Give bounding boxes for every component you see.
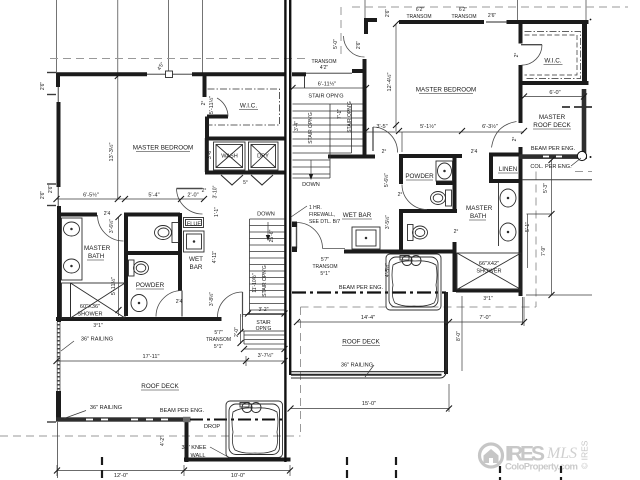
svg-text:2'-0": 2'-0"	[234, 327, 240, 337]
door arc, master bath A	[98, 215, 124, 241]
IRES MLS ColoProperty.com watermark	[480, 440, 590, 472]
double vanity sinks, master bath B	[498, 183, 500, 246]
svg-text:6'2": 6'2"	[416, 7, 425, 13]
toilet, powder room B	[446, 190, 452, 206]
unit B right side dims	[551, 160, 553, 295]
svg-text:TRANSOM: TRANSOM	[313, 264, 338, 270]
svg-text:FIREWALL,: FIREWALL,	[309, 212, 335, 218]
unit B hall dims y131	[363, 131, 525, 133]
svg-text:66"X42": 66"X42"	[479, 261, 499, 267]
svg-text:2°: 2°	[514, 53, 520, 58]
svg-text:4'2": 4'2"	[320, 65, 329, 71]
svg-text:SHOWER: SHOWER	[476, 269, 501, 275]
unit B master roof deck right beam	[582, 89, 586, 155]
shower 60x36, master bath A	[62, 283, 71, 318]
unit B WIC	[582, 20, 587, 85]
bifold doors, laundry closet A	[221, 175, 243, 185]
door arc, unit B entry at top left	[344, 36, 365, 57]
toilet, master bath A water closet	[172, 223, 179, 243]
beam per eng., roof deck B	[292, 291, 446, 293]
svg-text:3'-6": 3'-6"	[207, 149, 213, 159]
svg-text:3'-10": 3'-10"	[213, 185, 219, 198]
36in railing, roof deck B	[291, 292, 447, 378]
36in railing, roof deck A south edge	[56, 417, 184, 421]
sink, powder room B	[436, 161, 453, 181]
svg-text:15'-0": 15'-0"	[362, 401, 376, 407]
stair treads, unit A stairwell	[243, 219, 285, 344]
dryer closet DRY, unit A	[249, 142, 279, 170]
flue chase, unit A	[184, 218, 204, 228]
unit B bedroom door from stairs	[372, 127, 374, 151]
svg-text:5'-1½": 5'-1½"	[420, 123, 436, 130]
unit A WIC stub / walls	[203, 76, 207, 97]
svg-text:5'-6½": 5'-6½"	[383, 173, 390, 187]
svg-text:10'-0": 10'-0"	[231, 473, 245, 479]
svg-text:W.I.C.: W.I.C.	[544, 58, 561, 65]
wet bar sink, unit A	[184, 231, 205, 252]
svg-text:14'-4": 14'-4"	[361, 315, 375, 321]
door arc, powder room A	[156, 291, 182, 317]
unit B wet bar / tub top wall	[344, 250, 453, 254]
svg-text:TRANSOM: TRANSOM	[407, 14, 432, 20]
svg-text:36" RAILING: 36" RAILING	[81, 337, 113, 343]
svg-text:2°: 2°	[398, 192, 403, 198]
svg-text:5°: 5°	[243, 180, 248, 186]
svg-text:2°: 2°	[512, 137, 518, 142]
svg-text:BEAM PER ENG.: BEAM PER ENG.	[339, 285, 384, 291]
unit B 7-0 + 14-4 dim	[297, 321, 524, 323]
svg-text:36" KNEE: 36" KNEE	[182, 445, 207, 451]
svg-text:MASTER BEDROOM: MASTER BEDROOM	[416, 87, 477, 94]
door arc, W.I.C. A	[217, 98, 228, 117]
svg-text:2'6": 2'6"	[40, 82, 46, 91]
svg-text:3'-5": 3'-5"	[376, 124, 387, 130]
svg-text:5'-4": 5'-4"	[148, 193, 159, 199]
svg-text:BEAM PER ENG.: BEAM PER ENG.	[160, 408, 205, 414]
unit B stair area walls	[363, 75, 367, 156]
unit B stair dim y88	[293, 87, 363, 89]
svg-text:36" RAILING: 36" RAILING	[90, 405, 122, 411]
svg-text:BAR: BAR	[190, 264, 203, 271]
svg-text:STAIR OPN'G: STAIR OPN'G	[308, 94, 343, 100]
svg-text:STAIR OPN'G: STAIR OPN'G	[308, 112, 314, 144]
svg-text:5'-1": 5'-1"	[525, 222, 531, 232]
svg-text:SEE DTL. B/7: SEE DTL. B/7	[309, 219, 340, 225]
svg-text:TRANSOM: TRANSOM	[206, 337, 231, 343]
svg-text:5'7": 5'7"	[321, 257, 330, 263]
svg-text:BEAM PER ENG.: BEAM PER ENG.	[531, 146, 576, 152]
svg-text:5°1": 5°1"	[320, 271, 330, 277]
svg-text:2'4: 2'4	[471, 149, 478, 155]
unit A deck dim y361	[57, 360, 285, 362]
svg-text:MASTER: MASTER	[466, 205, 493, 212]
svg-text:13'-3½": 13'-3½"	[108, 143, 115, 162]
svg-text:WET: WET	[189, 256, 203, 263]
svg-text:6'-11½": 6'-11½"	[318, 81, 337, 88]
unit B shower walls	[453, 242, 457, 292]
beam per eng., master roof deck B	[519, 154, 587, 159]
svg-text:2°: 2°	[202, 188, 207, 194]
stair treads, unit B stairwell	[293, 104, 363, 178]
svg-text:3'-2": 3'-2"	[259, 307, 269, 313]
svg-text:MASTER: MASTER	[539, 114, 566, 121]
wash/dry side wall	[205, 138, 209, 172]
svg-text:2'6": 2'6"	[356, 41, 362, 50]
svg-text:8'-0": 8'-0"	[456, 331, 462, 341]
svg-text:3'-5½": 3'-5½"	[384, 215, 391, 229]
svg-text:6'-3½": 6'-3½"	[482, 123, 498, 130]
svg-text:BATH: BATH	[470, 213, 487, 220]
svg-text:WASH: WASH	[221, 154, 238, 160]
svg-text:ROOF DECK: ROOF DECK	[342, 339, 380, 346]
svg-text:3'-7½": 3'-7½"	[258, 352, 274, 359]
svg-text:5'-0": 5'-0"	[333, 39, 339, 49]
unit A bottom wall	[56, 317, 222, 321]
svg-text:POWDER: POWDER	[405, 173, 434, 180]
door arc, stair hall B	[297, 223, 323, 249]
svg-text:5'-11½": 5'-11½"	[208, 96, 215, 115]
svg-text:11'-10½": 11'-10½"	[251, 273, 258, 293]
door arc, deck transom door A	[218, 292, 243, 317]
door arc, bedroom A to hall	[177, 189, 203, 215]
unit B deck 15-0 dim	[291, 408, 450, 410]
svg-text:3'-4": 3'-4"	[294, 121, 300, 131]
svg-text:5'-3": 5'-3"	[543, 183, 549, 193]
svg-text:36" RAILING: 36" RAILING	[341, 363, 373, 369]
svg-text:BATH: BATH	[88, 253, 105, 260]
svg-text:MASTER: MASTER	[84, 245, 111, 252]
vanity counter, master bath A	[62, 218, 83, 280]
svg-text:FLUE: FLUE	[187, 222, 202, 228]
washer closet WASH, unit A	[214, 142, 246, 170]
svg-text:© IRES: © IRES	[580, 440, 590, 469]
closet rod lines, W.I.C. A	[208, 89, 280, 125]
svg-text:2'4: 2'4	[176, 299, 183, 305]
svg-text:12'-0": 12'-0"	[114, 473, 128, 479]
svg-text:12'-4½": 12'-4½"	[386, 73, 393, 92]
svg-text:MLS: MLS	[546, 445, 577, 462]
svg-text:WET BAR: WET BAR	[343, 212, 372, 219]
svg-text:DOWN: DOWN	[257, 212, 275, 218]
property line tick marks, bottom	[102, 457, 561, 480]
svg-text:6'-5½": 6'-5½"	[83, 192, 99, 199]
unit B linen	[489, 153, 522, 157]
svg-text:7'-9": 7'-9"	[541, 246, 547, 256]
svg-text:4'-2": 4'-2"	[160, 436, 166, 446]
svg-text:POWDER: POWDER	[136, 282, 165, 289]
closet rod lines, W.I.C. B	[525, 32, 581, 79]
svg-text:3'-8½": 3'-8½"	[208, 292, 215, 306]
svg-text:5°1": 5°1"	[214, 344, 224, 350]
bottom dim y470	[57, 470, 290, 472]
hot tub, roof deck A drop area	[226, 401, 283, 458]
svg-text:7'-0": 7'-0"	[479, 315, 490, 321]
unit A bath interior	[57, 213, 97, 217]
svg-text:5'7": 5'7"	[214, 330, 223, 336]
svg-text:2'6": 2'6"	[385, 9, 391, 18]
left 2'6 ticks	[47, 72, 56, 74]
unit A stair dims	[240, 314, 242, 344]
top verticals	[56, 0, 58, 72]
dim slash ticks	[54, 21, 588, 474]
svg-text:COL. PER ENG.: COL. PER ENG.	[530, 164, 572, 170]
unit B deck right wall lower	[444, 292, 448, 374]
door arc, powder room B	[402, 185, 427, 210]
svg-text:1 HR.: 1 HR.	[309, 205, 322, 211]
rotated dim texts	[40, 9, 549, 446]
unit A left wall segments	[57, 102, 61, 187]
svg-text:6'2": 6'2"	[459, 7, 468, 13]
svg-text:OPN'G: OPN'G	[256, 326, 272, 332]
unit B right wall below deck door	[519, 147, 523, 296]
unit A shower dim x118.5	[118, 217, 120, 316]
svg-text:4'-11": 4'-11"	[212, 251, 218, 264]
svg-text:2'-0": 2'-0"	[187, 193, 198, 199]
svg-text:25'-6": 25'-6"	[269, 229, 275, 242]
svg-text:2'6": 2'6"	[48, 185, 54, 194]
lower stair box	[243, 315, 285, 332]
shower 66x42, master bath B	[457, 253, 521, 290]
svg-text:STAIR OPN'G: STAIR OPN'G	[262, 265, 268, 297]
svg-text:2°: 2°	[382, 149, 387, 155]
unit B powder area	[399, 154, 462, 158]
svg-text:60"X36": 60"X36"	[80, 304, 100, 310]
svg-text:MASTER BEDROOM: MASTER BEDROOM	[133, 145, 194, 152]
window lines in exterior walls	[58, 22, 507, 206]
svg-text:W.I.C.: W.I.C.	[240, 103, 257, 110]
sink, master bath A lower	[64, 259, 80, 273]
36in knee wall, deck A drop	[185, 422, 189, 462]
svg-text:TRANSOM: TRANSOM	[452, 14, 477, 20]
svg-text:7'-1": 7'-1"	[337, 109, 343, 119]
unit A bedroom dim y199	[57, 198, 205, 200]
svg-text:ROOF DECK: ROOF DECK	[533, 122, 571, 129]
wall stub right of firewall at top	[292, 72, 306, 76]
svg-text:3'-6½": 3'-6½"	[108, 219, 115, 233]
unit B top	[399, 20, 484, 24]
svg-text:ColoProperty.com: ColoProperty.com	[505, 462, 578, 473]
svg-text:WALL: WALL	[190, 453, 205, 459]
wet bar sink, unit B	[352, 227, 380, 249]
svg-text:3°1": 3°1"	[93, 323, 103, 329]
svg-text:2'6": 2'6"	[40, 191, 46, 200]
svg-text:2°: 2°	[201, 101, 207, 106]
svg-text:1'-1": 1'-1"	[214, 207, 220, 217]
beam per eng., roof deck A	[190, 419, 285, 421]
svg-text:4'-5½": 4'-5½"	[384, 263, 391, 277]
tub, master bath B	[386, 254, 441, 310]
svg-text:2'4: 2'4	[104, 211, 111, 217]
toilet, powder room A	[129, 260, 135, 276]
svg-text:6'-0": 6'-0"	[549, 90, 560, 96]
svg-text:SHOWER: SHOWER	[77, 312, 102, 318]
leaders	[61, 158, 581, 458]
svg-text:ROOF DECK: ROOF DECK	[141, 383, 179, 390]
railing pier, deck A west	[56, 391, 61, 418]
unit A top wall	[56, 72, 147, 76]
svg-text:3°1": 3°1"	[483, 296, 493, 302]
svg-text:2'6": 2'6"	[488, 13, 497, 19]
36in railing, roof deck A west edge	[57, 322, 60, 478]
svg-text:DRY: DRY	[257, 154, 269, 160]
svg-text:17'-11": 17'-11"	[143, 354, 160, 360]
1-hr firewall between units	[285, 0, 290, 462]
unit B master deck 6-0 dim	[524, 96, 584, 98]
down arrows in stairs	[267, 222, 269, 240]
arrowheads	[266, 174, 313, 241]
svg-text:LINEN: LINEN	[499, 166, 518, 173]
door arc, bedroom B to master roof deck	[492, 122, 517, 148]
sink, master bath A upper	[64, 222, 80, 236]
door arc, W.I.C. B	[521, 44, 542, 46]
svg-text:STAIR OPN'G: STAIR OPN'G	[347, 101, 353, 133]
svg-text:DOWN: DOWN	[302, 182, 320, 188]
svg-text:5'-11½": 5'-11½"	[110, 277, 117, 296]
pedestal sink, powder room A	[131, 295, 147, 312]
svg-text:DROP: DROP	[204, 424, 220, 430]
toilet, master bath B water closet	[408, 225, 414, 241]
svg-text:2°: 2°	[454, 229, 459, 235]
